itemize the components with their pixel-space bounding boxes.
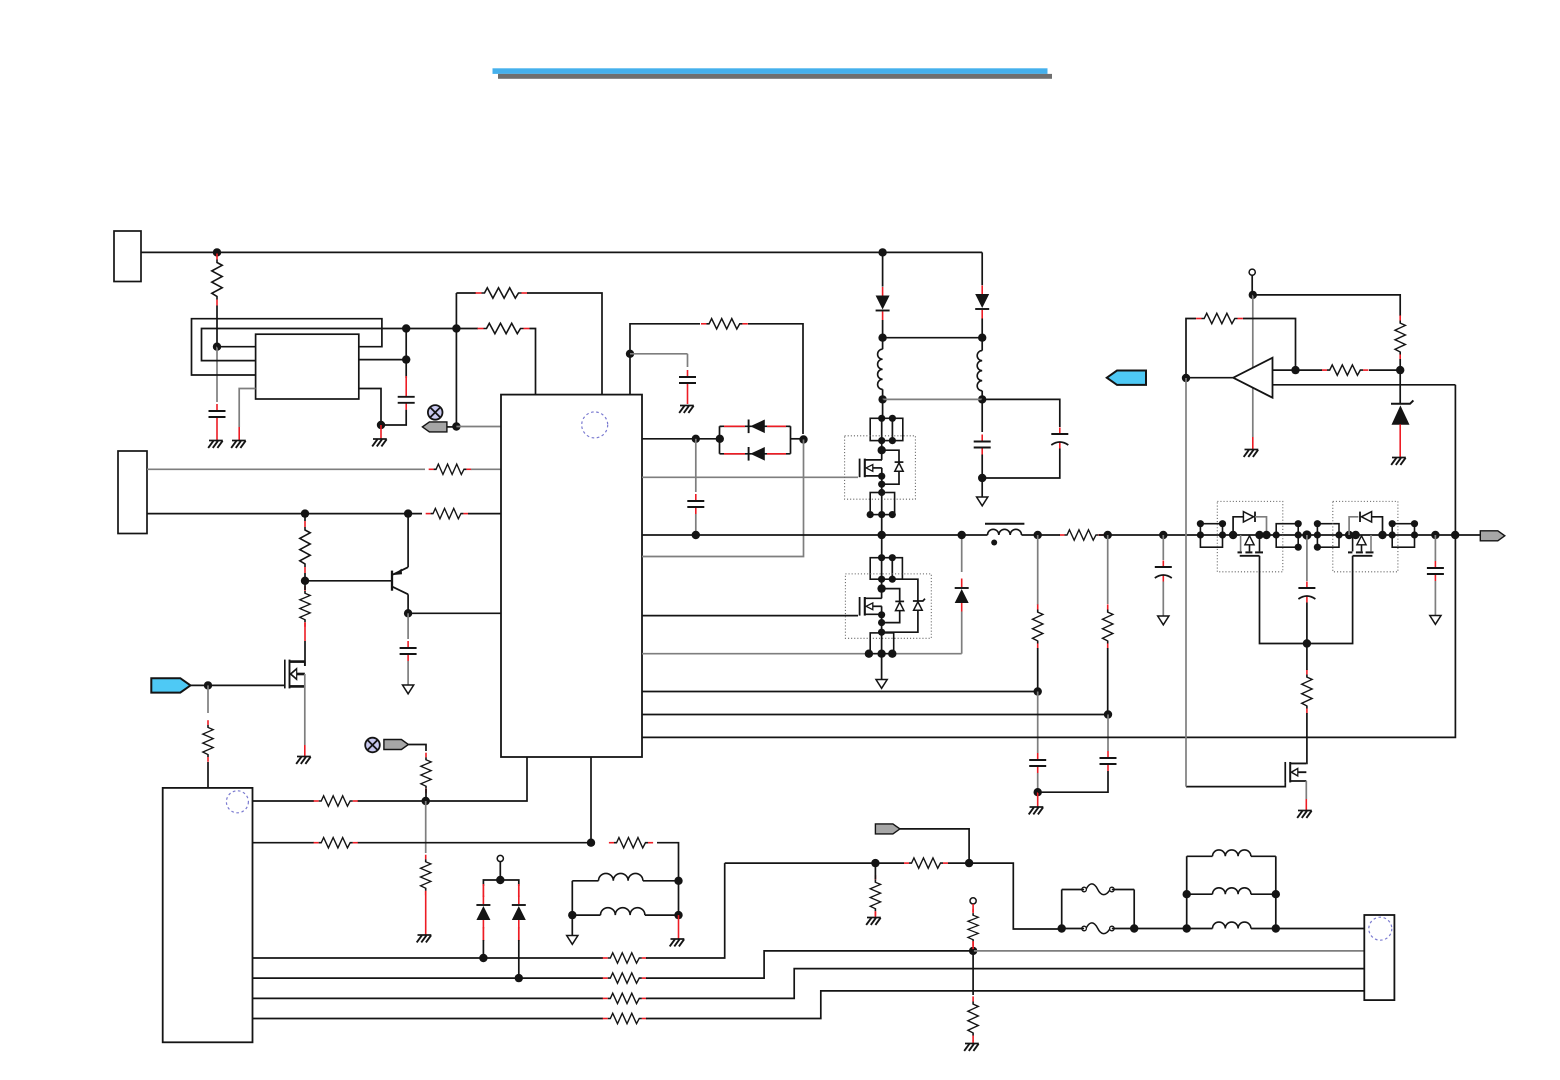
capacitor C10 [1029, 753, 1046, 773]
wire L7 lead left [1187, 893, 1213, 895]
wire Lpair arrow lead [571, 915, 573, 935]
wire R8 left branch [630, 324, 700, 395]
resistor R7 [300, 586, 310, 627]
diode D1 [876, 287, 890, 320]
wire T1 bottom-right pin [359, 389, 381, 426]
junction SW-C4 [692, 531, 700, 539]
wire opamp supply down [1252, 295, 1254, 437]
wire C10 bottom [1037, 773, 1039, 792]
resistor R20 [603, 993, 647, 1003]
junction Vout-C12 [1431, 531, 1439, 539]
wire choke to J3 [1276, 928, 1365, 930]
junction row801 node [422, 797, 430, 805]
wire R10 to U2 [207, 762, 209, 788]
wire zener top [1399, 370, 1401, 403]
wire zener bottom red [1399, 424, 1401, 457]
wire pack1 diode right path [1255, 517, 1267, 535]
wire D6 bottom [482, 940, 484, 958]
junction R14 node [871, 859, 879, 867]
junction tag3 node [965, 859, 973, 867]
wire Q2 source down [304, 674, 306, 745]
wire NF2 to corner [408, 745, 426, 752]
wire L2 bottom lead [981, 391, 983, 400]
wire diode pair to x803 [791, 438, 804, 440]
wire R16 node down [972, 951, 974, 995]
junction SW-HB [878, 531, 886, 539]
junction Lpair tr [674, 877, 682, 885]
junction fuse left [1058, 924, 1066, 932]
diode D12 [1243, 512, 1253, 522]
resistor R14 [870, 875, 880, 916]
wire NF1 to junction [447, 426, 457, 428]
capacitor C1 [209, 404, 226, 424]
wire Lpair gnd lead [678, 915, 680, 938]
resistor R16 [968, 909, 978, 946]
wire C6 top lead [981, 399, 983, 432]
junction JP3 a [878, 554, 885, 561]
capacitor C12 [1427, 561, 1444, 581]
title underline highlight bar [493, 68, 1048, 74]
junction JP8 c [1389, 531, 1396, 538]
wire C4 to main line [695, 514, 697, 535]
junction Lpair bl [568, 911, 576, 919]
zener D11 [913, 599, 925, 601]
junction JP8 d [1411, 531, 1418, 538]
wire pack2 diode top path [1349, 517, 1358, 535]
terminal O2 [970, 898, 976, 904]
resistor R10 [203, 720, 213, 762]
wire JP4 to arrow [881, 654, 883, 680]
module frame pack1 [1217, 501, 1283, 571]
wire D11 top link [892, 579, 918, 601]
wire R23 bottom [1037, 648, 1039, 692]
junction R16 node [969, 947, 977, 955]
ground GND4 [296, 757, 311, 764]
wire opamp inn wire [1273, 384, 1456, 386]
wire L3 to R22 [1022, 534, 1039, 536]
wire R2 left corner [456, 292, 476, 294]
wire IC to diode pair [642, 438, 720, 440]
junction JP3 c [878, 576, 885, 583]
junction C6-C7 node [978, 474, 986, 482]
wire C8 top [1162, 535, 1164, 560]
wire U2 pin2 row [253, 842, 592, 844]
junction pin2-Q1 [404, 509, 412, 517]
wire D9 bottom link [882, 471, 899, 484]
resistor R1 [212, 254, 222, 306]
wire fuse to choke [1134, 928, 1187, 930]
body diode D9 [895, 461, 904, 463]
wire gate wire [208, 684, 285, 686]
junction sense-a [865, 650, 873, 658]
wire Q2 source red lead [304, 745, 306, 756]
junction JP1 c [878, 437, 885, 444]
resistor R21 [603, 1013, 647, 1023]
wire Q1 emitter up [407, 514, 409, 568]
resistor R17 [968, 996, 978, 1040]
junction Q4 source a [878, 611, 885, 618]
wire FB1 to C10 [1037, 692, 1039, 754]
wire T1 bottom-left pin [239, 389, 255, 428]
wire rail to D1 [882, 252, 884, 286]
junction Lpair br [674, 911, 682, 919]
wire diode pair top link [720, 425, 791, 427]
jumper block JP7 [1317, 524, 1339, 548]
IC U1 [501, 395, 642, 757]
wire row5 right [646, 969, 1364, 999]
wire gate node down [207, 685, 209, 713]
wire L6 lead left [1187, 855, 1213, 857]
wire Lpair right vert [678, 881, 680, 915]
jumper block JP5 [1200, 524, 1222, 548]
wire x456 vertical [455, 293, 457, 427]
wire row6 right [646, 991, 1364, 1019]
wire Q7 source [1305, 781, 1307, 799]
body diode D10 [895, 600, 904, 602]
junction D2 node [978, 334, 986, 342]
wire G3 to node [900, 829, 969, 863]
junction L2 node [978, 395, 986, 403]
inductor L7 [1213, 888, 1251, 894]
net flag X1 circle [428, 405, 443, 420]
ground GND12 [866, 918, 881, 925]
junction pack2 in a [1345, 531, 1353, 539]
inductor L2 [977, 351, 982, 391]
inductor L3 phase dot [991, 540, 997, 546]
junction JP6 b [1295, 520, 1302, 527]
wire D10 top link [882, 589, 900, 602]
junction Q4 source c [878, 629, 885, 636]
junction pack1 in [1229, 531, 1237, 539]
wire SW to JP3 [881, 535, 883, 558]
junction diode pair right [799, 435, 807, 443]
junction rail-R1 [213, 248, 221, 256]
junction JP2 a [878, 489, 885, 496]
wire R28 bottom [1399, 359, 1401, 370]
ground GND11 [670, 939, 685, 946]
junction D6D7 top [496, 876, 504, 884]
transformer T1 body [256, 334, 359, 399]
wire inp wire [1273, 369, 1296, 371]
wire D6 bottom red [482, 927, 484, 941]
ground arrow A2 [977, 497, 988, 506]
wire U2 row4 [253, 977, 604, 979]
wire L8 lead left [1187, 928, 1213, 930]
wire pack2 diode right path [1372, 517, 1383, 535]
wire L5 lead right [645, 914, 679, 916]
junction C2-gnd node [377, 421, 385, 429]
net tag G3 [875, 824, 900, 834]
junction JP2 b [867, 511, 874, 518]
wire C7 bottom [982, 449, 1060, 479]
diode D13 [1361, 512, 1371, 522]
jumper block JP6 [1276, 524, 1298, 548]
resistor R28 [1395, 315, 1405, 359]
net tag B2 (blue) [1107, 371, 1146, 385]
wire R26 right corner [1243, 319, 1296, 371]
wire F2 leads [1062, 928, 1135, 930]
wire T1 bottom-left red lead [238, 427, 240, 440]
wire T1 right pin [359, 359, 406, 361]
capacitor C6 [974, 435, 991, 455]
wire Q3 drain [881, 450, 883, 460]
wire packs mid down [1306, 535, 1308, 581]
junction opamp vcc node [1249, 291, 1257, 299]
wire choke left vert [1186, 856, 1188, 928]
junction JP6 c [1295, 531, 1302, 538]
wire R9 bottom [425, 789, 427, 801]
wire fuse left vert [1061, 890, 1063, 929]
ground GND3 [372, 439, 387, 446]
junction Vout-sense [1451, 531, 1459, 539]
wire node to fuse row [969, 863, 1062, 929]
junction JP7 c [1314, 544, 1321, 551]
wire D11 bottom link [882, 610, 918, 632]
ground GND6 [1029, 807, 1044, 814]
ground arrow A5 [1430, 616, 1441, 625]
wire C8 bottom [1162, 582, 1164, 617]
resistor R9 [421, 753, 431, 794]
diode D2 [975, 286, 989, 319]
net tag NF2 [384, 740, 409, 750]
junction JP7 b [1314, 531, 1321, 538]
wire D5 to sense [961, 612, 963, 654]
wire JP3 to Q4 [881, 579, 883, 588]
wire NF1 node to IC [456, 426, 501, 428]
wire R6 top lead [304, 514, 306, 521]
wire Q2 drain stub [304, 662, 306, 666]
module frame pack2 [1333, 501, 1398, 571]
junction T1 left pin [213, 343, 221, 351]
wire L5 lead left [572, 914, 600, 916]
resistor R24 [1103, 604, 1113, 648]
wire R27 left lead [1296, 369, 1323, 371]
junction Q3 drain node [878, 446, 886, 454]
wire C2 to corner [381, 410, 406, 425]
capacitor C3 [679, 370, 696, 390]
junction Q1-C5 node [404, 609, 412, 617]
wire R7 red lead [304, 623, 306, 641]
wire R7 to Q2 drain [304, 641, 306, 666]
junction SW-D5 [958, 531, 966, 539]
wire Q1 node to IC [408, 612, 501, 614]
wire R5 to IC [468, 513, 501, 515]
ground GND9 [1391, 458, 1406, 465]
wire mid link [883, 398, 983, 400]
transistor Q1 emitter [393, 567, 409, 575]
wire D7 top link [500, 880, 519, 886]
junction opamp inp node [1291, 366, 1299, 374]
net tag G4 (output) [1480, 531, 1505, 541]
wire vcc to R28 [1253, 295, 1400, 316]
wire mid link to C7 [982, 399, 1060, 427]
transistor Q6 (pack2 FET) [1357, 536, 1366, 545]
ground arrow A6 [567, 936, 578, 945]
resistor R8 [701, 319, 748, 329]
junction L1 node [878, 395, 886, 403]
diode D6 [476, 896, 490, 929]
wire B1 to junction [191, 684, 209, 686]
resistor R18 [603, 953, 647, 963]
wire JP2 to SW [881, 515, 883, 535]
module frame lower FET [845, 574, 931, 638]
wire R27 right lead [1369, 369, 1400, 371]
wire R6 to base node [304, 573, 306, 581]
wire Q1 collector down [407, 594, 409, 613]
junction Q4 source b [878, 619, 885, 626]
wire R16 bottom [972, 949, 974, 951]
ground arrow A1 [403, 685, 414, 694]
junction JP6 a [1273, 531, 1280, 538]
junction Q3 source b [878, 481, 885, 488]
wire D2 drop [981, 252, 983, 285]
junction opamp out node [1182, 374, 1190, 382]
wire U2 row6 [253, 1018, 604, 1020]
junction choke left mid [1183, 890, 1191, 898]
junction JP5 b [1219, 520, 1226, 527]
diode D5 [955, 579, 969, 612]
junction JP5 d [1219, 531, 1226, 538]
junction base node [301, 577, 309, 585]
wire upper gate net [642, 476, 858, 478]
ground GND2 [231, 441, 246, 448]
wire SW sense net [642, 653, 962, 655]
resistor R23 [1033, 604, 1043, 648]
junction JP1 b [889, 415, 896, 422]
wire O2 red lead [972, 904, 974, 912]
ground GND13 [964, 1044, 979, 1051]
transistor Q1 base bar [391, 571, 393, 591]
junction JP3 b [889, 554, 896, 561]
transistor Q1 collector [393, 587, 409, 595]
junction JP3 d [889, 576, 896, 583]
junction D6 row3 [479, 954, 487, 962]
wire L7 lead right [1251, 893, 1276, 895]
junction NF1 node [452, 422, 460, 430]
junction JP1 d [889, 437, 896, 444]
wire R25 top lead [1306, 644, 1308, 671]
junction R8 tap [626, 350, 634, 358]
net flag X2 circle [365, 738, 380, 753]
inductor L3 [988, 529, 1022, 535]
IC U2 pin1 mark [226, 791, 248, 813]
junction gate drive node [1303, 639, 1311, 647]
capacitor C2 [398, 390, 415, 410]
wire D2 to node [981, 319, 983, 338]
wire comp net [642, 385, 1455, 738]
resistor R2 [476, 288, 528, 298]
op-amp U3 [1233, 358, 1272, 398]
wire JP1 to Q3 [881, 441, 883, 451]
transistor Q7 [1285, 762, 1306, 782]
wire row801 down [425, 801, 427, 853]
wire L4 lead left [572, 880, 598, 882]
junction T1 right pin node [402, 355, 410, 363]
wire R15 leads [875, 862, 969, 864]
inductor L8 [1213, 922, 1251, 928]
wire R24 bottom [1107, 648, 1109, 715]
inductor L4 [598, 873, 642, 880]
junction pack2 mid [1352, 531, 1360, 539]
wire U2 row5 [253, 997, 604, 999]
wire F1 leads [1062, 889, 1135, 891]
ground arrow A3 [876, 680, 887, 689]
wire fuse right vert [1133, 890, 1135, 929]
junction choke right mid [1272, 890, 1280, 898]
junction gnd node C10 [1034, 788, 1042, 796]
junction row842 node [587, 839, 595, 847]
junction JP8 b [1411, 520, 1418, 527]
jumper block JP4 [870, 633, 894, 654]
resistor R15 [904, 858, 948, 868]
wire C12 bottom [1434, 581, 1436, 616]
junction JP5 c [1197, 531, 1204, 538]
wire row3 right [646, 863, 725, 958]
junction sense-c [888, 650, 896, 658]
resistor R13 [609, 838, 653, 848]
wire x803 vertical [642, 440, 804, 557]
ground GND5 [679, 406, 694, 413]
resistor R4 [429, 464, 472, 474]
wire R14b to gnd [425, 891, 427, 935]
wire R25 to Q7 [1305, 713, 1308, 763]
wire R24 top [1107, 535, 1109, 604]
wire row3 top run [725, 862, 876, 864]
wire x406 to C2 [405, 360, 407, 378]
jumper block JP8 [1392, 524, 1414, 548]
resistor R26 [1196, 313, 1243, 323]
wire choke right vert [1275, 856, 1277, 928]
wire IC pin to row842 [590, 757, 592, 843]
wire R3 to IC top [530, 329, 536, 395]
junction choke left bot [1183, 924, 1191, 932]
junction comp node [1396, 366, 1404, 374]
ground arrow A4 [1158, 616, 1169, 625]
junction Q4 drain node [877, 584, 885, 592]
wire L4 lead right [643, 880, 679, 882]
capacitor C4 [687, 494, 704, 514]
inductor L6 [1213, 850, 1251, 856]
wire R26 left corner [1186, 319, 1196, 379]
diode D7 [512, 896, 526, 929]
net tag B1 (blue) [151, 678, 190, 692]
wire C3 to ground [687, 390, 689, 404]
wire C12 top [1434, 535, 1436, 561]
wire R14 top lead [874, 863, 876, 879]
wire R16 red bottom [972, 941, 974, 950]
wire D3 red leads [724, 425, 786, 427]
wire R22 leads [1038, 534, 1108, 536]
wire D7 bottom red [518, 927, 520, 941]
wire L6 lead right [1251, 855, 1276, 857]
ground GND8 [1244, 450, 1259, 457]
resistor R25 [1302, 669, 1312, 713]
wire tap to C3 [630, 353, 688, 355]
junction pack mid node [1302, 530, 1311, 539]
wire R1 to T1 node [216, 306, 218, 347]
wire FB2 to C11 [1107, 715, 1109, 752]
diode pair frame [720, 426, 791, 454]
junction gate node [204, 681, 212, 689]
wire R14 gnd lead [874, 912, 876, 918]
capacitor C11 [1100, 751, 1117, 771]
wire C3 top lead [687, 354, 689, 367]
jumper block JP2 [870, 484, 894, 514]
resistor R12 [314, 838, 358, 848]
junction pack2 out [1378, 531, 1386, 539]
wire Q6 gate lead [1308, 556, 1353, 644]
wire L1 top lead [882, 338, 884, 350]
